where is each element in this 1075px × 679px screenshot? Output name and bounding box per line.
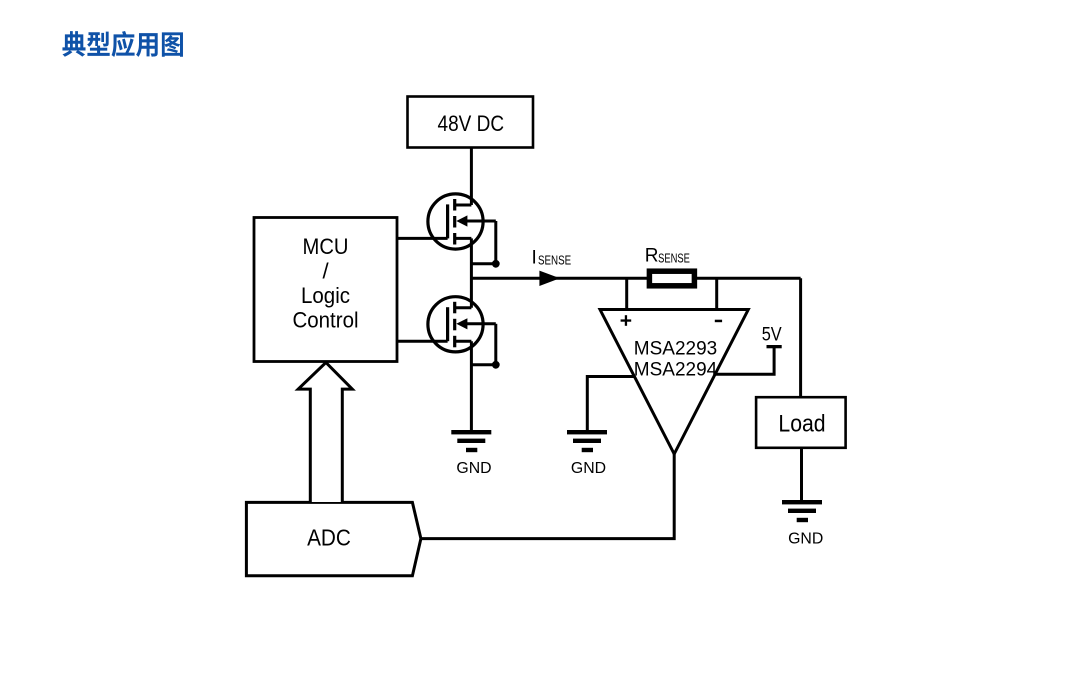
ground GND3 bbox=[782, 500, 823, 547]
wire to op-amp - input bbox=[715, 278, 718, 309]
svg-text:5V: 5V bbox=[762, 324, 782, 345]
block arrow ADC to MCU bbox=[298, 363, 352, 503]
junction dot M2 body-source tie bbox=[492, 361, 500, 369]
ISENSE arrowhead bbox=[539, 271, 560, 286]
svg-text:Logic: Logic bbox=[301, 283, 350, 308]
svg-text:SENSE: SENSE bbox=[538, 253, 571, 268]
5V supply bar bbox=[767, 345, 782, 348]
transistor M2 (low-side NMOS) bbox=[428, 297, 496, 365]
op-amp + input label bbox=[621, 319, 632, 321]
svg-text:SENSE: SENSE bbox=[658, 251, 690, 266]
wire Load to GND3 bbox=[800, 448, 803, 501]
svg-text:/: / bbox=[322, 259, 329, 284]
junction dot M1 body-source tie bbox=[492, 260, 500, 268]
title 典型应用图 bbox=[62, 31, 183, 57]
wire to op-amp + input bbox=[625, 278, 628, 309]
op-amp - input label bbox=[715, 320, 722, 323]
ADC block bbox=[246, 502, 421, 575]
svg-text:ADC: ADC bbox=[307, 524, 351, 550]
Load box bbox=[756, 397, 846, 448]
svg-text:GND: GND bbox=[788, 530, 823, 547]
48V DC source box bbox=[408, 97, 534, 148]
svg-text:I: I bbox=[532, 248, 537, 269]
svg-text:GND: GND bbox=[456, 460, 491, 477]
svg-text:Control: Control bbox=[293, 308, 359, 333]
svg-text:GND: GND bbox=[571, 460, 606, 477]
svg-text:MSA2294: MSA2294 bbox=[634, 358, 718, 380]
ground GND2 bbox=[567, 430, 607, 477]
wire M2 source to GND1 bbox=[470, 341, 473, 431]
transistor M1 (high-side NMOS) bbox=[428, 194, 496, 264]
svg-text:MCU: MCU bbox=[303, 234, 349, 259]
wire 5V to op-amp V+ bbox=[716, 348, 775, 374]
wire ISENSE node to Load corner bbox=[471, 277, 800, 280]
MCU / Logic Control box bbox=[254, 218, 397, 362]
svg-text:Load: Load bbox=[778, 411, 825, 438]
wire op-amp V- to GND2 bbox=[587, 377, 633, 432]
svg-text:48V DC: 48V DC bbox=[438, 111, 505, 136]
wire 48V DC to M1 drain bbox=[470, 148, 473, 206]
wire gate M1 from MCU bbox=[397, 237, 448, 240]
svg-text:R: R bbox=[645, 246, 659, 267]
wire down to Load bbox=[799, 278, 802, 397]
resistor RSENSE bbox=[649, 271, 694, 286]
ground GND1 bbox=[451, 430, 491, 477]
wire M1 source to M2 drain (trunk) bbox=[470, 238, 473, 307]
op-amp U1 triangle bbox=[600, 310, 748, 455]
wire gate M2 from MCU bbox=[397, 340, 448, 343]
wire op-amp output to ADC bbox=[421, 454, 674, 539]
svg-text:MSA2293: MSA2293 bbox=[634, 338, 717, 360]
